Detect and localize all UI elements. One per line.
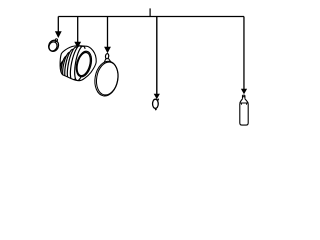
arrowhead 4 xyxy=(154,94,160,100)
wire: drop 4 to snap ring xyxy=(156,17,158,95)
wire: drop 1 to small clamp xyxy=(57,17,59,33)
arrowhead 5 xyxy=(241,89,247,95)
arrowhead 1 xyxy=(55,31,62,38)
wire: drop 5 to grease tube xyxy=(243,17,245,90)
wire: short up tick on bus xyxy=(149,8,151,16)
arrowhead 2 xyxy=(74,42,81,49)
snap ring (circlip) xyxy=(153,99,159,111)
grease tube xyxy=(240,95,248,125)
large clamp ring xyxy=(92,53,121,97)
small clamp (boot band) xyxy=(47,38,61,53)
wire: top horizontal callout bus xyxy=(58,16,244,18)
arrowhead 3 xyxy=(104,47,111,54)
boot outline xyxy=(60,46,96,81)
wire: drop 2 to boot xyxy=(77,17,79,43)
wire: drop 3 to large ring xyxy=(107,17,109,48)
